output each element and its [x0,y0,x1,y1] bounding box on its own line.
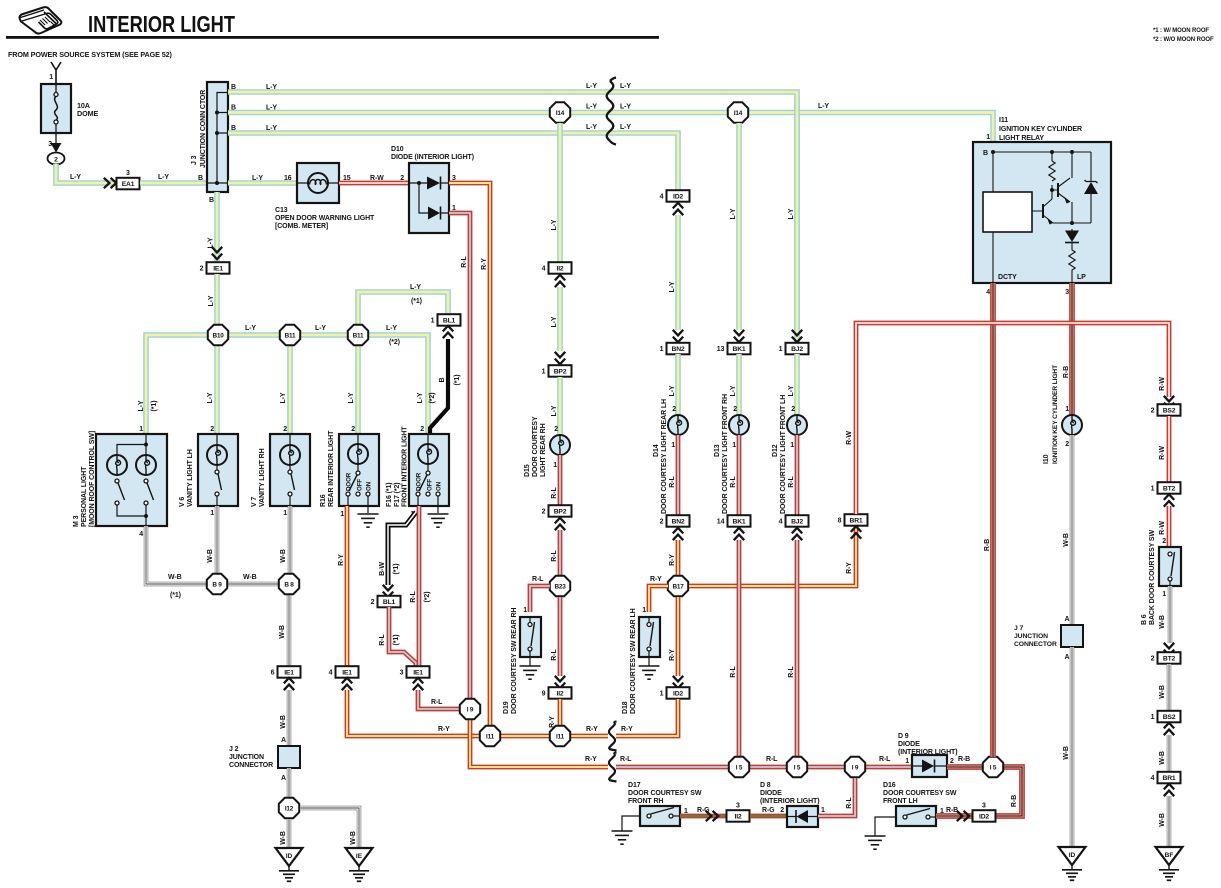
relay transistor Q2 [1042,204,1044,218]
svg-text:L-Y: L-Y [620,124,631,131]
svg-text:DIODE: DIODE [898,741,920,748]
wire R-Y BN2 to B17 [676,540,681,576]
wire W-B V6 to B9 [215,506,220,574]
wire R-L BP2 to B23 [558,530,563,576]
svg-text:2: 2 [733,406,737,413]
svg-text:R-L: R-L [551,649,558,661]
wire R-L rail2 to D9 [612,765,912,770]
D16 switch internals [875,817,896,836]
splice I5b rail2 [787,757,807,777]
ignition key cylinder light relay I11 [973,142,1111,283]
wire R-L D15 to BP2 no2 [558,455,563,505]
svg-text:D18: D18 [622,701,629,714]
svg-text:(INTERIOR LIGHT): (INTERIOR LIGHT) [760,798,819,805]
svg-text:3: 3 [126,170,130,177]
wire R-Y IE1 no4 to rail [347,690,678,736]
svg-text:2: 2 [283,426,287,433]
svg-text:DCTY: DCTY [998,274,1017,281]
wire R-W BT2 to B6 [1167,506,1172,547]
svg-text:BL1: BL1 [383,599,396,606]
svg-text:LIGHT REAR RH: LIGHT REAR RH [540,423,547,477]
diode D10 (interior light) [409,163,449,233]
svg-text:R-W: R-W [846,431,853,445]
chevron below BL1 [443,326,453,338]
svg-text:L-Y: L-Y [410,284,421,291]
svg-text:R-Y: R-Y [669,554,676,566]
svg-text:R-L: R-L [879,756,891,763]
svg-text:DOOR: DOOR [346,472,353,491]
svg-text:W-B: W-B [168,574,182,581]
svg-text:(*1): (*1) [151,401,158,412]
splice B23 [550,576,570,596]
connector BK1 pin13 [717,343,751,355]
V7 switch [288,470,292,474]
svg-text:ID2: ID2 [673,691,683,698]
svg-text:1: 1 [660,691,664,698]
svg-text:4: 4 [660,194,664,201]
svg-text:B11: B11 [353,332,364,339]
svg-text:DOOR COURTESY LIGHT REAR LH: DOOR COURTESY LIGHT REAR LH [661,399,668,514]
svg-text:2: 2 [660,519,664,526]
svg-text:IGNITION KEY CYLINDER: IGNITION KEY CYLINDER [999,126,1082,133]
fuse element [55,84,57,92]
svg-text:(*1): (*1) [454,375,461,386]
svg-text:R-Y: R-Y [621,726,633,733]
wire L-Y line3 J3 to ID2 [228,133,678,190]
svg-text:BS2: BS2 [1163,714,1176,721]
splice I9 [460,699,480,719]
connector II2 pin3 [727,802,750,821]
wire L-Y ID2 to BN2 [675,215,681,330]
svg-text:1: 1 [671,442,675,449]
svg-text:W-B: W-B [1063,746,1070,760]
svg-text:R-W: R-W [1159,521,1166,535]
svg-text:14: 14 [717,519,725,526]
svg-text:W-B: W-B [280,715,287,729]
svg-text:R-L: R-L [730,666,737,678]
svg-text:W-B: W-B [1063,533,1070,547]
svg-text:L-Y: L-Y [586,83,597,90]
chevron below BJ2 no4 [792,528,802,540]
wire R-L D10 pin1 down to I9 [449,213,470,699]
svg-text:I 5: I 5 [990,764,997,771]
svg-text:BS2: BS2 [1163,408,1176,415]
svg-text:BR1: BR1 [850,518,863,525]
wire W-B I12 to ground ID [287,819,292,848]
wire R-B relay pin3 to I10 [1069,283,1075,415]
wire R-B D16 to ID2 no3 [936,813,972,819]
svg-text:BK1: BK1 [733,346,746,353]
svg-text:1: 1 [821,807,825,814]
chevron into BT2 no2 [1164,643,1174,655]
wire R-Y D10 pin3 down to I11 [449,183,490,731]
svg-text:I 9: I 9 [852,764,859,771]
svg-text:D 8: D 8 [760,782,771,789]
svg-text:DOOR COURTESY SW: DOOR COURTESY SW [628,790,702,797]
svg-text:R-Y: R-Y [846,562,853,574]
svg-text:4: 4 [139,531,143,538]
svg-text:1: 1 [660,346,664,353]
svg-text:OFF: OFF [357,479,364,491]
svg-text:L-Y: L-Y [669,281,676,292]
svg-text:L-Y: L-Y [207,392,214,403]
header dome-light icon [20,7,62,33]
svg-text:IE: IE [356,853,363,860]
ground ID right [1059,847,1086,880]
wire W-B M3 to B9 [146,526,207,584]
connector IE1 pin3 [400,666,430,678]
svg-text:1: 1 [139,426,143,433]
svg-text:OFF: OFF [427,479,434,491]
svg-text:B 9: B 9 [212,581,222,588]
svg-text:(*1): (*1) [170,592,181,599]
connector BJ2 pin4 [779,515,809,527]
wire W-B I12 right to ground IE [300,808,359,848]
wire R-Y B17 to D18 [649,586,668,612]
wire L-Y B10 down to V6 [214,346,220,434]
svg-text:L-Y: L-Y [266,105,277,112]
B6 switch internals [1168,552,1172,556]
svg-text:R-W: R-W [1159,377,1166,391]
D10 internal diodes [409,183,449,213]
svg-text:BL1: BL1 [443,318,456,325]
svg-text:BF: BF [1165,852,1174,859]
relay diode [1071,229,1073,248]
diode D8 (interior light) [787,806,818,827]
wire L-Y IE1 to B10 [214,274,220,325]
door courtesy switch rear RH D19 [520,617,541,657]
C13 bulb leads [297,182,339,184]
svg-text:16: 16 [284,175,292,182]
svg-text:1: 1 [790,442,794,449]
svg-text:8: 8 [838,518,842,525]
svg-text:L-Y: L-Y [348,392,355,403]
wire R-Y I9 down to rail2 [470,720,612,767]
svg-text:L-Y: L-Y [417,392,424,403]
svg-text:1: 1 [642,607,646,614]
svg-text:L-Y: L-Y [208,237,215,248]
wire W-B B8 down to IE1 no6 [287,595,292,667]
wire L-Y I14b down to BK1 [736,123,742,330]
svg-text:L-Y: L-Y [730,208,737,219]
svg-text:DOOR COURTESY SW REAR LH: DOOR COURTESY SW REAR LH [630,608,637,714]
M3 bulb right [136,455,156,475]
F16 bulb [418,444,438,464]
svg-text:R-B: R-B [1063,366,1070,378]
chevron below BS2 no1 [1164,723,1174,735]
svg-text:FRONT INTERIOR LIGHT: FRONT INTERIOR LIGHT [402,426,409,507]
svg-text:A: A [1065,654,1070,661]
splice B9 [207,574,227,594]
svg-text:L-Y: L-Y [788,385,795,396]
connector BL1 pin1 [431,314,461,326]
svg-text:IE1: IE1 [213,266,223,273]
door courtesy switch rear LH D18 [639,617,660,657]
svg-text:DOOR: DOOR [416,472,423,491]
splice oval 2 [48,153,65,165]
svg-text:W-B: W-B [280,831,287,845]
svg-text:A: A [1065,616,1070,623]
title underline rule [6,36,659,39]
svg-text:I 9: I 9 [467,706,474,713]
wire R-L BJ2 to I5b [795,540,800,757]
connector BS2 pin2 [1151,404,1181,416]
door courtesy switch front RH D17 [640,806,680,826]
connector BK1 pin14 [717,515,751,527]
ignition key cylinder light I10 [1062,415,1082,435]
svg-text:D16: D16 [883,782,896,789]
svg-text:A: A [281,737,286,744]
svg-text:2: 2 [210,426,214,433]
svg-text:R-W: R-W [1159,446,1166,460]
svg-text:L-Y: L-Y [252,175,263,182]
svg-text:1: 1 [283,510,287,517]
svg-text:3: 3 [982,802,986,809]
junction connector J2 [278,746,300,768]
wire L-Y BN2 to D14 bulb [675,354,681,415]
wire L-Y J3 bottom to IE1 [214,192,220,262]
chevron below IE1 no3 [413,678,423,690]
svg-text:2: 2 [420,426,424,433]
back door courtesy switch B6 [1159,547,1181,586]
svg-text:L-Y: L-Y [386,325,397,332]
svg-text:ID: ID [1069,852,1076,859]
wire R-L D14 to BN2 no2 [676,435,681,515]
svg-text:W-B: W-B [1159,751,1166,765]
connector BJ2 pin1 [779,343,809,355]
personal light M3 [96,434,167,526]
svg-text:3: 3 [400,670,404,677]
chevron into BS2 no2 [1164,396,1174,408]
svg-text:[COMB. METER]: [COMB. METER] [275,223,328,230]
svg-text:F16 (*1): F16 (*1) [386,483,393,508]
V7 internal leads [289,434,291,506]
svg-text:R-L: R-L [551,550,558,562]
connector BT2 pin1 [1151,482,1181,494]
chevron below BR1 no8 [851,526,861,538]
svg-text:R-B: R-B [984,539,991,551]
wire R-L IE1 no3 to I9 [418,690,460,709]
svg-text:B23: B23 [554,583,566,590]
svg-text:M 3: M 3 [73,515,80,527]
svg-text:J 2: J 2 [229,746,239,753]
svg-text:FRONT LH: FRONT LH [883,798,918,805]
relay IC block [983,192,1032,232]
chevron into BK1 no13 [734,330,744,342]
wire R-L B23 down to II2 no9 [558,597,563,676]
svg-text:R-B: R-B [958,756,970,763]
relay resistor R1 [1049,161,1055,181]
wire L-Y BJ2 to D12 bulb [794,354,800,415]
chevron into EA1 [104,178,116,188]
svg-text:IE1: IE1 [342,670,352,677]
svg-text:1: 1 [779,346,783,353]
connector BL1 pin2 [371,596,401,608]
wavy break brace across top lines [607,78,616,145]
svg-text:4: 4 [986,289,990,296]
svg-text:B: B [983,150,988,157]
chevron into ID2 no1 [673,676,683,688]
wire L-Y line2 J3 to relay I11 [228,113,993,143]
svg-text:LP: LP [1077,274,1086,281]
ground R16 ON [358,514,379,527]
chevron into BJ2 no1 [792,330,802,342]
svg-text:2: 2 [400,175,404,182]
J3 internal bus [207,93,228,184]
svg-text:B10: B10 [212,332,224,339]
svg-text:L-Y: L-Y [208,295,215,306]
svg-text:R-Y: R-Y [669,649,676,661]
splice arrowhead [51,143,62,153]
splice I12 [279,798,299,818]
chevron below BT2 no1 [1164,494,1174,506]
svg-text:L-Y: L-Y [245,325,256,332]
svg-text:1: 1 [431,318,435,325]
svg-text:W-B: W-B [279,625,286,639]
wire R-G D17 to II2 no3 [680,814,726,819]
wire B black BL1 to F16 [430,339,448,434]
svg-text:I11: I11 [556,733,565,740]
ground ID left [276,848,303,881]
svg-text:L-Y: L-Y [551,219,558,230]
door courtesy light rear RH D15 [550,435,570,455]
wire W-B B6 to BT2 no2 [1168,586,1173,643]
ground D18 [639,666,660,679]
svg-text:I 5: I 5 [736,764,743,771]
chevron below BR1 no4 [1164,784,1174,796]
svg-text:2: 2 [1151,408,1155,415]
svg-text:IE1: IE1 [284,670,294,677]
svg-text:2: 2 [54,156,58,163]
svg-text:BACK DOOR COURTESY SW: BACK DOOR COURTESY SW [1149,530,1156,625]
svg-text:1: 1 [1151,714,1155,721]
wire R-G II2 to D8 [750,814,787,819]
svg-text:2: 2 [1162,538,1166,545]
svg-text:BP2: BP2 [554,369,567,376]
svg-text:V 6: V 6 [179,497,186,507]
svg-text:(*2): (*2) [429,393,436,404]
splice B10 [208,325,228,345]
svg-text:L-Y: L-Y [280,392,287,403]
svg-text:2: 2 [371,599,375,606]
M3 bulb left [107,455,127,475]
D19 switch internals [529,617,531,622]
splice B11 [280,325,300,345]
wire R-L BK1 to I5 [737,540,742,757]
svg-text:R-Y: R-Y [438,726,450,733]
svg-text:(*1): (*1) [393,564,400,575]
svg-text:BT2: BT2 [1163,656,1176,663]
svg-text:DOOR COURTESY SW REAR RH: DOOR COURTESY SW REAR RH [511,608,518,714]
svg-text:6: 6 [271,670,275,677]
wire B-W F16 pin1 to BL1 [388,512,416,585]
relay resistor R2 [1069,248,1075,283]
wire L-Y line1 down to BJ2 [794,97,800,330]
wire R-B D9 to ID2 no3 [947,767,1022,816]
svg-text:J 7: J 7 [1014,625,1023,632]
svg-text:R-L: R-L [461,256,468,268]
svg-text:VANITY LIGHT LH: VANITY LIGHT LH [187,449,194,507]
svg-text:D12: D12 [772,444,779,457]
wire L-Y BK1 to D13 bulb [736,354,742,415]
svg-text:II2: II2 [557,266,564,273]
wire L-Y B11b right to F16 [369,335,428,434]
chevron into IE1 no2 [212,247,222,259]
F16 internal leads [418,434,438,513]
svg-text:DOOR COURTESY SW: DOOR COURTESY SW [883,790,957,797]
svg-text:C13: C13 [275,207,288,214]
svg-text:B11: B11 [285,332,296,339]
chevron below BK1 no14 [734,528,744,540]
svg-text:IGNITION KEY CYLINDER LIGHT: IGNITION KEY CYLINDER LIGHT [1052,365,1059,464]
diode D9 (interior light) [912,755,947,777]
wire R-B relay pin4 to I5c [990,283,996,757]
svg-text:II2: II2 [735,814,742,821]
svg-text:1: 1 [1162,591,1166,598]
relay transistor Q1 [1057,183,1059,197]
svg-text:ID: ID [286,853,293,860]
svg-text:I 5: I 5 [794,764,801,771]
wire W-B V7 to B8 [288,506,293,574]
svg-text:L-Y: L-Y [266,125,277,132]
svg-text:1: 1 [986,134,990,141]
V6 internal leads [216,434,218,506]
connector BN2 pin2 [660,515,690,527]
D17 switch internals [622,816,640,831]
splice I11 rail1 [480,726,500,746]
connector IE1 pin4 [329,666,359,678]
splice I9c rail2 [845,757,865,777]
wire L-Y B11 down to V7 [287,346,293,434]
wire L-Y J3 to C13 [228,180,297,186]
wire R-L F16 pin1 to IE1 no3 [417,506,422,667]
V6 bulb [207,445,227,465]
svg-text:W-B: W-B [1159,813,1166,827]
svg-text:D17: D17 [628,782,641,789]
connector II2 pin4 [542,262,572,274]
svg-text:4: 4 [1151,775,1155,782]
svg-text:R-L: R-L [730,476,737,488]
connector ID2 pin4 [660,190,690,202]
M3 internal leads [117,434,146,526]
ground D17 [612,831,633,844]
wire W-B B9 to B8 [228,582,279,587]
svg-text:W-B: W-B [243,574,257,581]
svg-text:R-B: R-B [946,807,958,814]
wire R-W BS2 to BT2 [1167,416,1172,482]
chevron below BP2 no2 [555,518,565,530]
wire R-L D8 to I9c [818,778,855,816]
svg-text:BN2: BN2 [672,519,685,526]
wire R-Y R16 pin1 to IE1 no4 [345,506,350,667]
svg-text:BJ2: BJ2 [791,346,803,353]
wire R-Y B17 down to ID2 no1 [676,597,681,676]
svg-text:B: B [231,125,236,132]
wire R-L D12 to BJ2 no4 [795,435,800,515]
svg-text:CONNECTOR: CONNECTOR [229,762,273,769]
wire R-L D13 to BK1 no14 [737,435,742,515]
svg-text:OPEN DOOR WARNING LIGHT: OPEN DOOR WARNING LIGHT [275,215,375,222]
svg-text:R-L: R-L [620,756,632,763]
svg-text:I14: I14 [556,110,565,117]
svg-text:4: 4 [542,266,546,273]
junction connector J3 [207,82,228,192]
svg-text:R-L: R-L [379,634,386,646]
svg-text:J 3: J 3 [191,155,198,165]
chevron into II2 no9 [555,676,565,688]
wire W-B BR1 to ground BF [1167,796,1172,847]
svg-text:R-Y: R-Y [586,726,598,733]
